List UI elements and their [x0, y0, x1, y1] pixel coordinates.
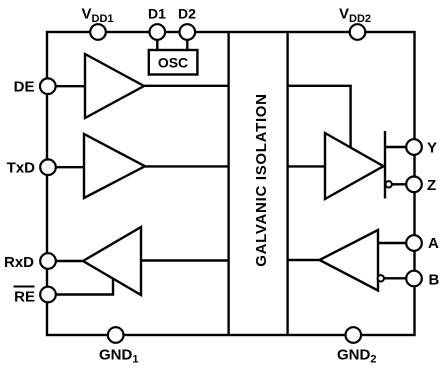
receiver U5 (bus side): [320, 230, 379, 291]
pin B: [406, 271, 422, 287]
buffer U1 (DE path): [85, 54, 144, 118]
wire right receiver to A pin: [378, 242, 406, 244]
svg-text:D1: D1: [148, 6, 166, 22]
wire barrier to driver enable: [288, 86, 351, 149]
svg-text:B: B: [429, 272, 440, 289]
wire TxD buffer output to barrier: [145, 165, 229, 167]
pin Y: [406, 139, 422, 155]
svg-text:DE: DE: [14, 79, 35, 96]
label RE (active low): [14, 287, 36, 306]
svg-text:Y: Y: [427, 140, 437, 157]
pin VDD1: [90, 24, 106, 40]
wire bar to Y pin: [385, 146, 406, 148]
pin RxD: [40, 253, 56, 269]
outer block boundary: [47, 32, 415, 335]
wire bubble to Z pin: [392, 183, 406, 185]
inversion bubble on Z output: [386, 181, 392, 187]
pin A: [406, 235, 422, 251]
svg-text:RxD: RxD: [4, 254, 34, 271]
galvanic isolation barrier: [229, 32, 288, 335]
wire barrier to receiver input: [141, 259, 229, 261]
svg-text:RE: RE: [14, 289, 35, 306]
driver output bar: [384, 131, 386, 199]
svg-text:Z: Z: [427, 177, 436, 194]
pin D2: [180, 24, 196, 40]
wire RE pin to receiver enable: [55, 279, 113, 295]
D1 stub to OSC: [156, 40, 158, 50]
pin RE: [40, 287, 56, 303]
pin VDD2: [350, 24, 366, 40]
wire bubble to B pin: [384, 277, 406, 279]
driver U4 (bus side): [325, 133, 384, 199]
svg-text:D2: D2: [178, 6, 196, 22]
wire TxD pin to buffer: [55, 166, 84, 168]
pin GND2: [346, 327, 362, 343]
svg-text:GALVANIC ISOLATION: GALVANIC ISOLATION: [253, 93, 270, 266]
inversion bubble on B input: [378, 275, 384, 281]
D2 stub to OSC: [186, 40, 188, 50]
pin Z: [406, 177, 422, 193]
pin D1: [150, 24, 166, 40]
wire DE pin to buffer: [55, 85, 85, 87]
wire right receiver output to barrier: [288, 259, 320, 261]
wire barrier to driver input: [288, 165, 325, 167]
svg-text:A: A: [428, 235, 439, 252]
wire DE buffer output to barrier: [144, 85, 229, 87]
receiver U3 (RxD): [83, 227, 141, 295]
pin DE: [40, 78, 56, 94]
pin TxD: [40, 159, 56, 175]
oscillator OSC box: [149, 50, 198, 75]
svg-text:TxD: TxD: [7, 160, 36, 177]
pin GND1: [108, 327, 124, 343]
wire receiver output to RxD pin: [55, 260, 83, 262]
buffer U2 (TxD driver input): [84, 134, 145, 198]
svg-text:OSC: OSC: [158, 55, 188, 71]
